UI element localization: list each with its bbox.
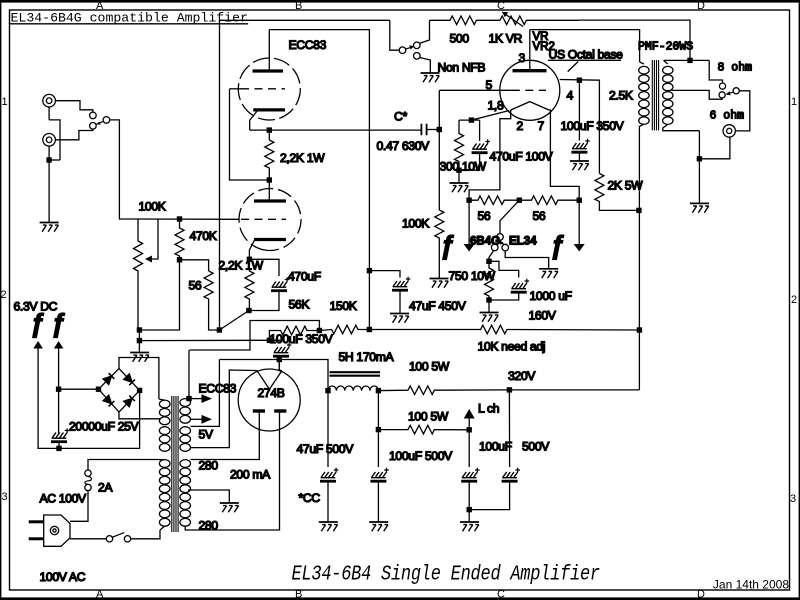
- svg-text:L ch: L ch: [478, 402, 499, 416]
- wire 6.3VDC left: [38, 349, 140, 449]
- diode bridge bottom-left: [103, 395, 114, 406]
- wire 470uF100V bottom: [459, 153, 480, 171]
- wire heater sense up: [188, 350, 190, 399]
- svg-text:10K need adj: 10K need adj: [478, 340, 546, 354]
- junction 320V: [507, 387, 512, 392]
- capacitor 100uF 350V plates: [571, 139, 589, 153]
- wire 1000uF bottom: [489, 293, 519, 301]
- svg-text:150K: 150K: [330, 299, 357, 313]
- svg-text:2A: 2A: [98, 481, 113, 495]
- wire grid bus to tube2: [138, 218, 240, 220]
- svg-text:1000 uF: 1000 uF: [530, 289, 572, 303]
- wire cap bottom to B+ bus: [280, 357, 282, 360]
- capacitor 47uF 450V plates: [392, 277, 410, 291]
- svg-text:ECC83: ECC83: [289, 38, 327, 52]
- input selector switch contact lower: [90, 123, 97, 130]
- output jack 6ohm (RCA): [723, 125, 735, 137]
- PT primary stubs: [158, 399, 165, 530]
- svg-text:EL34-6B4 Single Ended Amplifie: EL34-6B4 Single Ended Amplifier: [292, 562, 600, 586]
- grid dashes tube1: [241, 88, 285, 90]
- wire 47uF450V to ground: [399, 291, 401, 314]
- wire jack2 ground drop: [48, 146, 50, 222]
- input jack 1 (RCA): [43, 94, 56, 107]
- junction 56K-150K: [317, 328, 322, 333]
- wire 1,8 diagonal: [471, 111, 509, 121]
- wire 2.2K top stub: [268, 130, 270, 140]
- junction 470K bottom: [177, 257, 182, 262]
- wire tube1 plate to B+ drop: [269, 30, 369, 330]
- ground speaker common: [690, 203, 709, 212]
- svg-text:*CC: *CC: [299, 491, 321, 505]
- svg-text:274B: 274B: [258, 386, 285, 400]
- svg-text:470K: 470K: [190, 229, 217, 243]
- wire secondary top to selector: [664, 60, 723, 82]
- svg-text:C: C: [497, 589, 505, 600]
- wire 470uF bottom: [249, 291, 279, 311]
- wire 20000uF bottom: [58, 442, 60, 449]
- wire choke output to 320V: [378, 386, 509, 395]
- junction NFB takeoff: [687, 58, 692, 63]
- resistor 56 left: [469, 196, 519, 205]
- resistor 100 5W second: [378, 425, 469, 434]
- tube EL34 envelope: [500, 60, 560, 120]
- bridge rectifier diamond: [99, 369, 140, 413]
- arrow 6.3VDC right: [54, 341, 64, 349]
- wire 1000uF top: [489, 261, 519, 277]
- wire gnd bus up to NFB rail: [139, 260, 179, 330]
- tube ECC83 upper envelope: [238, 58, 300, 120]
- capacitor 470uF 100V plates: [472, 139, 490, 153]
- ground 100uF350V: [570, 161, 589, 170]
- arrow heater lower: [202, 415, 213, 424]
- cathode lead tube1: [250, 111, 258, 131]
- volume pot wiper: [146, 219, 158, 259]
- PT core: [172, 396, 178, 532]
- wire ground tie: [49, 159, 60, 161]
- wire pole to output jack: [736, 91, 750, 131]
- ground 47uF450V: [390, 314, 409, 323]
- junction 750 top: [486, 259, 491, 264]
- input selector switch contact upper: [90, 112, 97, 119]
- svg-text:56: 56: [478, 209, 491, 223]
- wire 5V top tap: [191, 360, 220, 427]
- junction cathode-2.2K top: [267, 127, 272, 132]
- switch Non NFB arm: [406, 46, 414, 49]
- wire 47uF450V branch: [369, 271, 400, 278]
- wire 300 bottom stem: [458, 170, 460, 182]
- resistor 150K: [319, 325, 369, 334]
- wire jack1 ground drop: [49, 107, 60, 160]
- grid dashes tube2: [241, 218, 286, 220]
- wire pin7 cathode down: [549, 110, 579, 200]
- svg-text:D: D: [697, 0, 705, 12]
- svg-text:20000uF 25V: 20000uF 25V: [69, 420, 140, 434]
- node 1,8 junction: [469, 117, 474, 122]
- right border bar: [799, 0, 800, 600]
- wire 5V bottom tap: [191, 370, 257, 448]
- OPT secondary coil: [664, 60, 668, 64]
- svg-text:500: 500: [450, 32, 470, 46]
- plate bar tube1: [253, 69, 284, 72]
- junction 56 row left: [466, 198, 471, 203]
- svg-text:0.47 630V: 0.47 630V: [377, 139, 431, 153]
- svg-text:320V: 320V: [508, 369, 536, 383]
- filament V 274B: [257, 371, 282, 390]
- svg-text:2: 2: [1, 289, 7, 301]
- svg-text:2.5K: 2.5K: [609, 89, 633, 103]
- junction 56K left: [267, 338, 272, 343]
- plate bar 274B left: [253, 409, 265, 412]
- junction cathode network: [246, 308, 251, 313]
- svg-text:3: 3: [2, 491, 8, 503]
- wire 100uF350V drop: [578, 80, 580, 140]
- junction 750 bottom: [486, 297, 491, 302]
- wire C* to grid line: [427, 129, 440, 131]
- wire HT bottom tap to 274B right plate: [185, 412, 279, 530]
- junction 56 row right: [577, 198, 582, 203]
- PT primary-side winding upper: [159, 400, 170, 408]
- ground center tap: [220, 503, 239, 512]
- wire heater tap top: [186, 398, 202, 400]
- junction pot-gnd upper: [137, 327, 142, 332]
- junction input ground: [46, 157, 51, 162]
- fuse 2A: [85, 484, 91, 490]
- svg-text:200 mA: 200 mA: [230, 468, 271, 482]
- capacitor 20000uF plates: [51, 428, 69, 442]
- svg-text:100 5W: 100 5W: [408, 410, 449, 424]
- svg-text:Non NFB: Non NFB: [438, 61, 486, 75]
- resistor 56K: [269, 326, 319, 340]
- svg-text:1K VR: 1K VR: [489, 32, 523, 46]
- wire NFB vertical long: [219, 20, 221, 330]
- junction grid-470K: [177, 216, 182, 221]
- resistor 10K need adj: [369, 325, 639, 334]
- junction bridge minus: [56, 387, 61, 392]
- grid lead tube1: [230, 88, 242, 90]
- plug body: [44, 515, 70, 546]
- svg-text:4: 4: [567, 89, 574, 103]
- wire B+ corner to 320V line: [509, 389, 639, 391]
- tube ECC83 lower envelope: [234, 184, 306, 256]
- wire secondary mid tap: [672, 90, 723, 99]
- top border bar: [0, 0, 800, 3]
- diode bridge top-right: [124, 374, 135, 385]
- wire jack1 to selector top contact: [55, 101, 93, 112]
- sheet title underline: [10, 23, 248, 25]
- wire selector pole to volume pot: [110, 120, 138, 219]
- wire NFB takeoff to output: [579, 20, 690, 60]
- diode bridge bottom-right: [124, 396, 135, 407]
- wire tube1 grid to tube2 plate: [230, 89, 270, 180]
- diode bridge top-left: [103, 373, 114, 384]
- svg-text:100V AC: 100V AC: [40, 570, 86, 584]
- resistor 2,2K 1W lower: [245, 259, 254, 310]
- wire upper contact to 500 junction: [420, 20, 430, 43]
- junction speaker common: [697, 156, 702, 161]
- svg-text:56: 56: [189, 279, 202, 293]
- junction pot-gnd lower: [137, 338, 142, 343]
- wire B+ vertical: [638, 210, 640, 390]
- input jack 2 (RCA): [43, 134, 56, 147]
- plug prong upper: [29, 520, 44, 523]
- svg-text:3: 3: [790, 493, 796, 505]
- svg-text:470uF 100V: 470uF 100V: [490, 150, 554, 164]
- ground 100K: [430, 279, 449, 288]
- svg-text:470uF: 470uF: [288, 270, 321, 284]
- resistor 100K feedback: [435, 210, 444, 278]
- wire HT top tap to 274B left plate: [191, 412, 260, 460]
- plug center mark: [50, 526, 58, 534]
- junction NFB node: [217, 327, 222, 332]
- junction 2K5W to B+: [636, 208, 641, 213]
- switch filament top contact: [497, 234, 504, 241]
- wire pin2 cathode down: [469, 110, 511, 200]
- wire right filament drop: [578, 200, 580, 244]
- grid dashes EL34: [512, 89, 546, 91]
- plug prong lower: [29, 537, 44, 540]
- svg-text:100uF 350V: 100uF 350V: [561, 119, 625, 133]
- plate bar 274B right: [274, 409, 286, 412]
- cathode bar tube2: [254, 238, 286, 241]
- wire NFB to switch left contact: [390, 20, 399, 50]
- svg-text:100uF 500V: 100uF 500V: [389, 449, 453, 463]
- wire secondary bottom drop: [698, 131, 700, 159]
- power switch arm: [112, 533, 124, 538]
- wire bridge minus link: [59, 388, 99, 390]
- svg-text:160V: 160V: [529, 309, 557, 323]
- svg-text:ECC83: ECC83: [199, 382, 237, 396]
- wire switch feed diagonal: [500, 200, 519, 233]
- junction C* grid: [437, 127, 442, 132]
- capacitor 100uF 500V first column: [377, 391, 379, 467]
- wire NFB diagonal to cathode node: [219, 311, 249, 331]
- wire heater tap lower: [191, 418, 202, 420]
- wire tube1 cathode output: [250, 129, 422, 131]
- svg-text:100uF: 100uF: [479, 440, 512, 454]
- tube 274B envelope: [238, 369, 300, 431]
- svg-text:1,8: 1,8: [488, 99, 504, 113]
- wire 750 to ground: [488, 300, 490, 312]
- junction bridge left: [96, 387, 101, 392]
- plate lead tube2: [268, 180, 270, 201]
- svg-text:2K 5W: 2K 5W: [608, 179, 644, 193]
- volume pot 100K body: [134, 219, 143, 330]
- wire 274B filament drop: [278, 360, 280, 372]
- svg-text:100uF 350V: 100uF 350V: [270, 332, 334, 346]
- svg-text:2,2K 1W: 2,2K 1W: [219, 259, 264, 273]
- junction 20000uF plus rail: [56, 446, 61, 451]
- svg-text:D: D: [697, 589, 705, 600]
- junction 56 row mid: [517, 198, 522, 203]
- svg-text:6B4G: 6B4G: [470, 236, 500, 248]
- wire filament right to B+: [279, 360, 282, 371]
- switch filament right contact: [502, 244, 509, 251]
- svg-text:6 ohm: 6 ohm: [710, 110, 745, 123]
- arrow filament left: [464, 244, 475, 252]
- OPT primary coil: [640, 62, 644, 64]
- plate bar EL34: [513, 69, 547, 72]
- resistor 500: [430, 16, 501, 25]
- capacitor 100uF 350V mid plates: [273, 343, 291, 357]
- wire grid drop to 100K: [438, 90, 440, 210]
- capacitor C* 0.47 630V: [421, 124, 426, 135]
- power switch contact left: [106, 536, 112, 542]
- wire switch to PT: [131, 530, 160, 539]
- svg-text:100K: 100K: [402, 217, 429, 231]
- switch filament left contact: [491, 244, 498, 251]
- wire ground bus mid: [139, 339, 269, 341]
- junction plate supply: [367, 327, 372, 332]
- capacitor 100uF 500V Lch left column: [468, 430, 470, 467]
- svg-text:750 10W: 750 10W: [449, 269, 496, 283]
- PT secondary HT winding: [180, 460, 191, 468]
- svg-text:1: 1: [791, 96, 797, 108]
- OPT core: [652, 60, 658, 130]
- junction 47uF450V tap: [367, 268, 372, 273]
- wire 6.3VDC right: [58, 349, 60, 434]
- svg-text:B: B: [295, 0, 302, 12]
- switch Non NFB contact left: [399, 47, 406, 54]
- ground filament switch: [539, 269, 558, 278]
- svg-text:56K: 56K: [289, 298, 310, 312]
- svg-text:5: 5: [486, 78, 493, 92]
- wire jack2 to selector bottom contact: [55, 129, 93, 140]
- wire 470uF100V top stem: [479, 120, 481, 141]
- wire HT center tap: [188, 490, 229, 503]
- junction B+ 10K: [637, 327, 642, 332]
- wire bridge top AC: [119, 358, 159, 400]
- junction heater top: [186, 396, 191, 401]
- svg-text:ƒ: ƒ: [550, 230, 564, 260]
- pot 1K VR wiper arrow: [503, 13, 523, 27]
- svg-text:ƒ: ƒ: [51, 308, 65, 338]
- wire heater loop: [190, 321, 320, 351]
- cathode lead tube2: [249, 240, 254, 259]
- wire lower contact to ground: [420, 58, 431, 73]
- wire rectifier B+ bus: [219, 360, 328, 391]
- resistor 750 10W: [485, 261, 494, 300]
- svg-text:2: 2: [517, 119, 524, 133]
- switch filament arm: [502, 242, 504, 245]
- capacitor 47uF 500V column: [327, 391, 329, 467]
- junction tube2 plate node: [267, 177, 272, 182]
- switch Non NFB contact lower right: [414, 53, 421, 60]
- ground 750: [480, 313, 499, 322]
- junction Lch node: [467, 427, 472, 432]
- ground input jacks: [40, 223, 59, 232]
- junction tube2 cathode: [247, 257, 252, 262]
- junction choke left: [325, 388, 330, 393]
- svg-text:C*: C*: [394, 110, 407, 124]
- svg-text:56: 56: [533, 209, 546, 223]
- choke 5H 170mA core: [330, 372, 381, 376]
- arrow heater upper: [202, 394, 213, 403]
- ground 300 10W: [450, 183, 469, 192]
- resistor 470K: [175, 219, 184, 260]
- speaker selector contact lower: [719, 92, 725, 98]
- resistor 56 cathode NFB: [204, 271, 219, 330]
- svg-text:B: B: [295, 589, 302, 600]
- ground pot bus: [130, 353, 149, 362]
- capacitor 470uF plates: [271, 277, 289, 291]
- arrow L ch: [468, 419, 470, 430]
- PT secondary 5V winding: [180, 427, 191, 435]
- wire NFB rail top: [220, 19, 390, 21]
- svg-text:2: 2: [791, 294, 797, 306]
- pointer line US Octal base: [568, 62, 579, 72]
- input selector pole: [103, 117, 110, 124]
- resistor 2.2K 1W upper: [265, 140, 274, 180]
- plate lead pin3: [529, 30, 531, 71]
- svg-text:8 ohm: 8 ohm: [718, 62, 753, 75]
- svg-text:AC 100V: AC 100V: [40, 492, 88, 506]
- underline US Octal base: [548, 59, 621, 61]
- junction bridge right: [137, 388, 142, 393]
- wire pin4 screen: [560, 80, 600, 174]
- speaker selector contact 8ohm: [719, 83, 725, 89]
- svg-text:Jan 14th 2008: Jan 14th 2008: [713, 578, 789, 592]
- wire 470K bottom to 56: [180, 260, 209, 271]
- plate lead tube1: [268, 30, 270, 71]
- cathode bar tube1: [253, 108, 285, 111]
- wire common to ground: [698, 159, 700, 203]
- bottom border bar: [0, 597, 800, 600]
- svg-text:ƒ: ƒ: [440, 230, 454, 260]
- svg-text:500V: 500V: [522, 440, 550, 454]
- junction 300 bottom: [456, 168, 461, 173]
- wire plug live to fuse: [70, 491, 88, 522]
- power switch contact right: [124, 536, 130, 542]
- svg-text:1: 1: [2, 96, 8, 108]
- svg-text:47uF 500V: 47uF 500V: [297, 442, 355, 456]
- junction filament B+: [277, 357, 282, 362]
- svg-text:US Octal base: US Octal base: [549, 48, 624, 62]
- input selector arm: [97, 121, 104, 124]
- arrow 6.3VDC left: [33, 341, 43, 349]
- svg-text:2,2K 1W: 2,2K 1W: [280, 151, 325, 165]
- wire pot bottom to ground: [138, 330, 139, 353]
- ground Non NFB switch: [421, 73, 440, 82]
- switch Non NFB contact upper right: [414, 42, 421, 49]
- choke 5H 170mA winding: [328, 386, 378, 391]
- wire left filament drop: [468, 200, 470, 244]
- wire cathode to 470uF: [249, 259, 279, 276]
- svg-text:5H 170mA: 5H 170mA: [339, 350, 395, 364]
- PT primary-side winding lower: [159, 460, 170, 468]
- svg-text:100 5W: 100 5W: [409, 360, 450, 374]
- wire plug neutral to switch: [70, 538, 106, 540]
- svg-text:PMF-20WS: PMF-20WS: [638, 41, 693, 54]
- wire right contact to ground: [505, 251, 549, 268]
- svg-text:280: 280: [199, 459, 219, 473]
- wire left contact down: [489, 251, 494, 262]
- wire 100uF350V to ground: [578, 152, 580, 161]
- resistor 300 10W: [455, 120, 464, 170]
- svg-text:280: 280: [199, 519, 219, 533]
- wire jack shell to common: [699, 137, 730, 159]
- svg-text:7: 7: [538, 119, 545, 133]
- svg-text:100K: 100K: [139, 200, 166, 214]
- svg-text:47uF 450V: 47uF 450V: [409, 299, 467, 313]
- svg-text:C: C: [497, 0, 505, 12]
- speaker selector pole: [733, 88, 739, 94]
- speaker selector arm: [729, 92, 734, 94]
- arrow filament right: [574, 244, 585, 252]
- left border bar: [0, 0, 1, 600]
- resistor 2K 5W: [595, 174, 639, 211]
- svg-text:A: A: [96, 589, 104, 600]
- wire 1,8 horizontal: [459, 119, 480, 121]
